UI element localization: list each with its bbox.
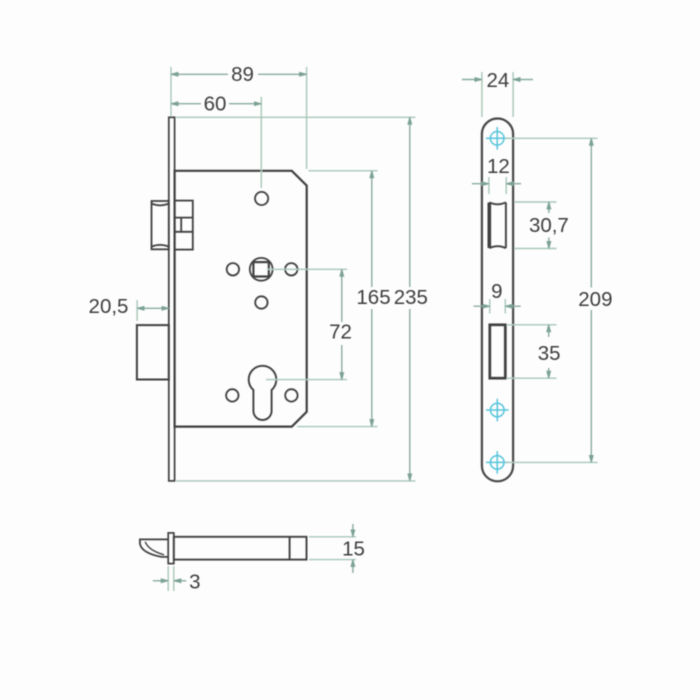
svg-text:30,7: 30,7 [529,214,569,237]
deadbolt cutout (front) [490,325,506,378]
dimension 89 [171,67,307,169]
deadbolt head [137,325,169,379]
svg-text:235: 235 [394,286,428,309]
cylinder fixing hole right [285,389,297,401]
svg-text:89: 89 [231,63,254,86]
spindle follower circle [250,258,273,281]
latch cutout (front) [489,202,506,248]
dimension 20,5 [137,300,169,321]
svg-text:24: 24 [486,69,509,92]
screw mark middle [486,399,509,422]
svg-text:60: 60 [204,93,227,116]
fixing hole lower [255,296,267,308]
cylinder fixing hole left [226,389,238,401]
svg-text:209: 209 [578,288,612,311]
svg-text:12: 12 [487,155,510,178]
faceplate bar (top view) [168,533,174,564]
handle spring hole [255,192,268,205]
spindle square hole [253,262,268,276]
fixing hole left [227,263,239,275]
dimension 9 [474,299,521,314]
screw mark bottom [486,451,509,474]
svg-text:165: 165 [356,286,390,309]
svg-text:72: 72 [329,321,352,344]
svg-text:20,5: 20,5 [89,295,129,318]
dimension 30,7 [514,202,557,249]
latch bolt head [152,201,169,249]
dimension 24 [462,72,533,117]
dimension 35 [507,325,557,378]
svg-text:15: 15 [342,538,365,561]
svg-text:35: 35 [538,342,561,365]
svg-text:3: 3 [189,571,200,594]
dimension 12 [472,177,521,194]
dimension 165 [297,171,378,427]
lock case outline [175,171,307,427]
dimension 235 [176,117,416,481]
latch bolt bevel (top view) [140,539,168,557]
lock body (top view) [174,537,307,560]
latch bolt tail block [175,201,193,250]
euro cylinder hole [249,366,277,420]
screw mark top [486,127,509,150]
faceplate front outline [482,119,513,482]
dimension 3 [153,566,186,591]
svg-text:9: 9 [491,280,502,303]
faceplate side view [169,117,175,481]
dimension 60 [171,97,261,188]
dimension 209 [505,138,598,462]
dimension 15 [309,524,356,573]
fixing hole right [285,263,297,275]
dimension 72 [266,269,347,379]
